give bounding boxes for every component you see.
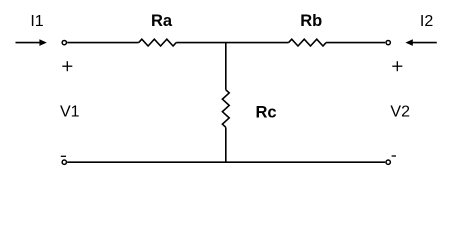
current arrow I1 xyxy=(16,39,47,46)
svg-text:Rc: Rc xyxy=(255,103,276,121)
wire top-right segment xyxy=(326,42,385,44)
svg-text:I2: I2 xyxy=(420,13,433,30)
plus sign (port 2 polarity) xyxy=(392,61,402,71)
resistor Rc xyxy=(222,90,229,128)
wire vertical lower segment xyxy=(225,127,227,162)
wire top-left segment xyxy=(67,42,139,44)
resistor Rb xyxy=(289,39,327,46)
svg-text:V1: V1 xyxy=(60,104,80,121)
terminal (top-left, port 1) xyxy=(62,40,66,44)
minus sign (port 1 polarity) xyxy=(61,155,66,157)
resistor Ra xyxy=(139,39,177,46)
wire vertical upper segment xyxy=(225,43,227,90)
svg-text:Ra: Ra xyxy=(151,12,173,30)
wire top-middle segment xyxy=(176,42,288,44)
minus sign (port 2 polarity) xyxy=(392,155,396,157)
terminal (top-right, port 2) xyxy=(386,40,390,44)
terminal (bottom-right) xyxy=(386,160,390,164)
svg-text:V2: V2 xyxy=(390,104,410,121)
svg-text:Rb: Rb xyxy=(300,12,322,30)
plus sign (port 1 polarity) xyxy=(62,61,72,71)
current arrow I2 xyxy=(405,39,436,46)
svg-text:I1: I1 xyxy=(30,13,43,30)
terminal (bottom-left) xyxy=(62,160,66,164)
wire bottom xyxy=(67,161,385,163)
